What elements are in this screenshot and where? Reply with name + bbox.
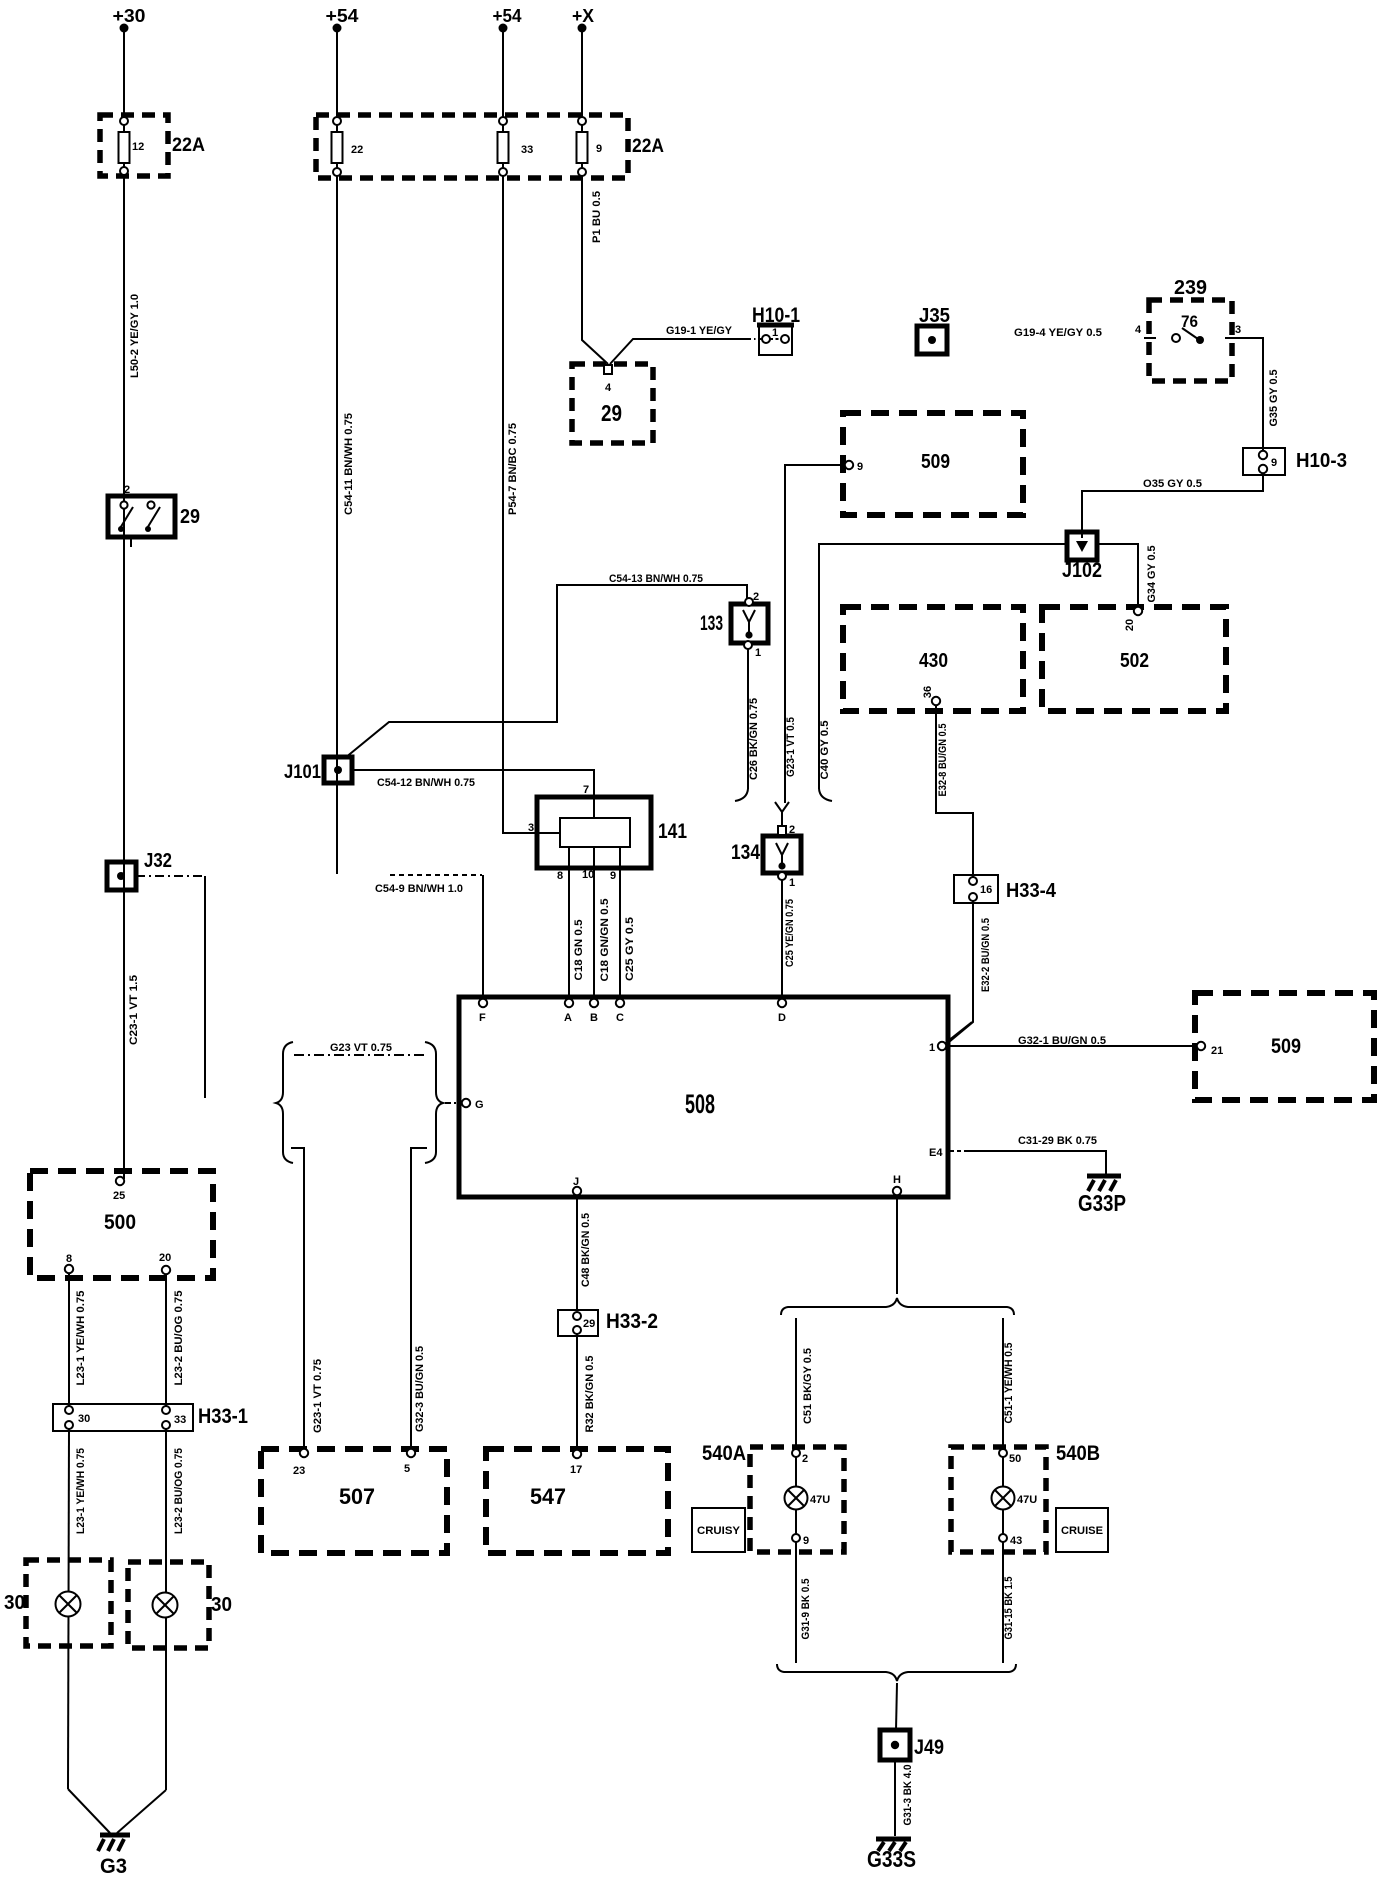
508 pin G: [462, 1099, 484, 1111]
svg-text:507: 507: [339, 1484, 375, 1509]
svg-text:25: 25: [113, 1190, 125, 1202]
svg-text:33: 33: [174, 1414, 186, 1426]
svg-text:G32-3 BU/GN 0.5: G32-3 BU/GN 0.5: [414, 1346, 426, 1432]
svg-text:G31-3 BK 4.0: G31-3 BK 4.0: [902, 1765, 914, 1826]
svg-text:C54-11 BN/WH 0.75: C54-11 BN/WH 0.75: [343, 413, 355, 515]
svg-text:141: 141: [658, 820, 687, 843]
svg-text:17: 17: [570, 1464, 582, 1476]
wire G35 from 239 pin 3 to H10-3: [1238, 338, 1263, 451]
svg-text:E32-2 BU/GN 0.5: E32-2 BU/GN 0.5: [980, 918, 992, 992]
wire +54 to fuse 33: [502, 32, 504, 121]
wire C54-11 fuse 22 down through J101: [336, 176, 338, 874]
junction J102: [1062, 532, 1102, 582]
wire H33-1 to lamp 30 (left): [68, 1429, 69, 1789]
brace bundle G23 left of 508: [276, 1042, 458, 1163]
connector H10-1: [752, 304, 800, 355]
ground G3: [98, 1835, 130, 1878]
svg-text:21: 21: [1211, 1045, 1223, 1057]
label CRUISE (right): [1056, 1508, 1108, 1552]
connector H33-2: [558, 1310, 658, 1336]
switch 239: [1135, 277, 1241, 381]
svg-text:E4: E4: [929, 1147, 943, 1159]
wire G31-3 J49 to ground G33S: [894, 1760, 896, 1836]
svg-text:P54-7 BN/BC 0.75: P54-7 BN/BC 0.75: [507, 423, 519, 515]
svg-text:D: D: [778, 1012, 786, 1024]
svg-text:B: B: [590, 1012, 598, 1024]
wire C54-9 (dashed continuation) to 508 pin F: [390, 875, 483, 1000]
svg-text:509: 509: [1271, 1035, 1301, 1058]
unit 29 (dashed): [572, 364, 653, 443]
svg-text:+X: +X: [572, 6, 594, 26]
svg-text:1: 1: [929, 1042, 935, 1054]
svg-text:430: 430: [919, 650, 948, 672]
wire G31-9 from 540A pin 9: [795, 1542, 797, 1663]
svg-text:C26 BK/GN 0.75: C26 BK/GN 0.75: [748, 698, 760, 780]
svg-text:3: 3: [1235, 324, 1241, 336]
wire +30 to fuse 12: [123, 32, 125, 121]
svg-text:J35: J35: [919, 305, 950, 327]
svg-text:C18 GN/GN 0.5: C18 GN/GN 0.5: [599, 899, 611, 982]
connector H33-4: [954, 875, 1057, 903]
unit 502: [1042, 607, 1226, 711]
svg-text:50: 50: [1009, 1453, 1021, 1465]
wire +X to fuse 9: [581, 32, 583, 121]
svg-text:G23-1 VT 0.75: G23-1 VT 0.75: [312, 1359, 324, 1433]
svg-text:30: 30: [211, 1594, 232, 1616]
wire +54 to fuse 22: [336, 32, 338, 121]
svg-text:4: 4: [1135, 324, 1142, 336]
wire E32-2 from H33-4 to 508 pin 1: [949, 901, 973, 1042]
svg-text:22: 22: [351, 144, 363, 156]
svg-text:C48 BK/GN 0.5: C48 BK/GN 0.5: [580, 1213, 592, 1287]
svg-text:G31-15 BK 1.5: G31-15 BK 1.5: [1003, 1577, 1015, 1640]
svg-text:10: 10: [582, 869, 594, 881]
wire C54-13 from J101 to 133: [345, 585, 747, 758]
unit 500: [30, 1171, 213, 1278]
svg-text:C25 YE/GN 0.75: C25 YE/GN 0.75: [784, 899, 796, 967]
508 pin D: [778, 999, 786, 1024]
svg-text:H33-1: H33-1: [198, 1405, 248, 1428]
svg-text:+30: +30: [113, 6, 146, 26]
svg-text:239: 239: [1174, 277, 1207, 299]
svg-text:540B: 540B: [1056, 1442, 1100, 1465]
svg-text:22A: 22A: [172, 135, 205, 156]
brace split to 540A/540B: [781, 1298, 1014, 1315]
svg-text:G3: G3: [100, 1855, 127, 1878]
wire (dash-dot stub from J32): [136, 875, 205, 877]
508 pin H: [893, 1174, 901, 1195]
fuse 22: [332, 117, 364, 176]
svg-text:47U: 47U: [810, 1494, 830, 1506]
unit 509 (right): [1195, 993, 1374, 1100]
svg-text:J32: J32: [144, 850, 172, 872]
svg-text:H: H: [893, 1174, 901, 1186]
relay 141: [528, 784, 687, 868]
svg-text:P1 BU 0.5: P1 BU 0.5: [591, 191, 603, 243]
svg-text:9: 9: [803, 1535, 809, 1547]
svg-text:CRUISE: CRUISE: [1061, 1525, 1103, 1537]
svg-text:30: 30: [4, 1592, 25, 1614]
wire 500 pin 8 to H33-1: [68, 1273, 70, 1407]
svg-text:29: 29: [601, 400, 622, 426]
svg-text:E32-8 BU/GN 0.5: E32-8 BU/GN 0.5: [937, 724, 949, 797]
508 pin A: [564, 999, 573, 1024]
junction J49: [880, 1730, 944, 1760]
svg-text:4: 4: [605, 382, 612, 394]
svg-text:500: 500: [104, 1211, 136, 1234]
svg-text:L50-2 YE/GY 1.0: L50-2 YE/GY 1.0: [129, 294, 141, 378]
svg-text:8: 8: [557, 870, 563, 882]
wire R32 H33-2 to 547 pin 17: [576, 1334, 578, 1450]
svg-text:G: G: [475, 1099, 484, 1111]
svg-text:G19-1 YE/GY: G19-1 YE/GY: [666, 325, 733, 337]
node +54 (second): [493, 6, 522, 33]
svg-text:20: 20: [1124, 619, 1136, 631]
svg-text:2: 2: [753, 591, 759, 603]
svg-text:547: 547: [530, 1484, 566, 1509]
junction J35: [917, 305, 950, 354]
svg-text:9: 9: [857, 461, 863, 473]
wire G23-1 from 509 pin 9 down to 134 pin 2 (arrow): [775, 465, 845, 826]
svg-text:H33-4: H33-4: [1006, 880, 1057, 902]
svg-text:G35 GY 0.5: G35 GY 0.5: [1268, 370, 1280, 427]
svg-text:20: 20: [159, 1252, 171, 1264]
svg-text:9: 9: [596, 143, 602, 155]
wire C26 from 133 pin 1 (curled end): [735, 649, 748, 801]
svg-text:C54-12 BN/WH 0.75: C54-12 BN/WH 0.75: [377, 777, 475, 789]
svg-text:G23 VT 0.75: G23 VT 0.75: [330, 1042, 392, 1054]
svg-text:L23-1 YE/WH 0.75: L23-1 YE/WH 0.75: [75, 1291, 87, 1386]
unit 507: [261, 1449, 447, 1553]
switch 29: [108, 484, 200, 547]
svg-text:29: 29: [180, 506, 200, 528]
svg-text:5: 5: [404, 1463, 410, 1475]
wire E32-8 from 430 pin 36 to H33-4: [936, 705, 973, 877]
508 pin B: [590, 999, 598, 1024]
svg-text:+54: +54: [493, 6, 522, 26]
brace merge to J49: [777, 1664, 1016, 1681]
svg-text:C40 GY 0.5: C40 GY 0.5: [819, 721, 831, 780]
svg-text:CRUISY: CRUISY: [697, 1525, 741, 1537]
svg-text:508: 508: [685, 1089, 715, 1119]
connector 134: [731, 824, 801, 889]
node +X: [572, 6, 594, 33]
lamp unit 540B: [951, 1442, 1100, 1552]
508 pin F: [479, 999, 487, 1024]
wire 500 pin 20 to H33-1: [165, 1274, 167, 1407]
svg-text:O35 GY 0.5: O35 GY 0.5: [1143, 478, 1202, 490]
wire G19-1 from H10-1 to unit 29: [610, 339, 764, 364]
svg-text:134: 134: [731, 841, 760, 864]
svg-text:C54-13 BN/WH 0.75: C54-13 BN/WH 0.75: [609, 573, 703, 585]
lamp unit 540A: [702, 1442, 844, 1552]
svg-text:A: A: [564, 1012, 572, 1024]
svg-text:16: 16: [980, 884, 992, 896]
svg-text:C: C: [616, 1012, 624, 1024]
ground G33P: [1078, 1176, 1126, 1216]
svg-text:G33S: G33S: [867, 1846, 916, 1872]
fuse 9: [577, 117, 603, 176]
svg-text:30: 30: [78, 1413, 90, 1425]
svg-text:23: 23: [293, 1465, 305, 1477]
svg-text:C51-1 YE/WH 0.5: C51-1 YE/WH 0.5: [1003, 1343, 1015, 1424]
svg-text:2: 2: [789, 824, 795, 836]
ground G33S: [867, 1839, 916, 1872]
svg-text:C54-9 BN/WH 1.0: C54-9 BN/WH 1.0: [375, 883, 463, 895]
svg-text:J102: J102: [1062, 559, 1102, 582]
lamp 30 (left): [4, 1560, 111, 1646]
connector H33-1: [53, 1404, 248, 1431]
wire C51 to 540A pin 2: [795, 1318, 797, 1450]
wire P1 fuse 9 down to unit 29: [582, 176, 608, 364]
svg-text:7: 7: [583, 784, 589, 796]
svg-text:29: 29: [583, 1318, 595, 1330]
wire C31-29 508 pin E4 to ground G33P: [950, 1151, 1106, 1174]
svg-text:509: 509: [921, 451, 950, 473]
svg-text:C25 GY 0.5: C25 GY 0.5: [624, 917, 636, 981]
svg-text:C51 BK/GY 0.5: C51 BK/GY 0.5: [802, 1348, 814, 1424]
508 pin 1: [929, 1042, 946, 1054]
wire G32-3 brace to 507 pin 5: [411, 1148, 427, 1449]
svg-text:2: 2: [124, 484, 130, 496]
wire H33-1 to lamp 30 (right): [165, 1429, 167, 1790]
wire 508 pin H down to brace: [896, 1195, 898, 1294]
label CRUISE (left): [692, 1508, 745, 1552]
wire O35 from H10-3 to J102: [1082, 475, 1263, 538]
wire C51-1 to 540B pin 50: [1002, 1318, 1004, 1450]
svg-text:47U: 47U: [1017, 1494, 1037, 1506]
svg-text:+54: +54: [326, 6, 359, 26]
wire G32-1 508 pin 1 to 509 pin 21: [947, 1022, 1197, 1046]
lamp 30 (right): [128, 1562, 232, 1648]
wire brace to J49: [896, 1683, 897, 1730]
svg-text:L23-2 BU/OG 0.75: L23-2 BU/OG 0.75: [173, 1291, 185, 1386]
svg-text:540A: 540A: [702, 1442, 746, 1465]
wires 141 pins 8,10,9 down to 508: [557, 847, 620, 1000]
svg-text:G31-9 BK 0.5: G31-9 BK 0.5: [800, 1579, 812, 1640]
svg-text:C23-1 VT 1.5: C23-1 VT 1.5: [128, 975, 140, 1045]
svg-text:1: 1: [789, 877, 795, 889]
fuse 12: [119, 117, 145, 175]
fuse box 22A (left): [100, 115, 168, 176]
wire C48 508 pin J to H33-2: [576, 1195, 578, 1311]
svg-text:R32 BK/GN 0.5: R32 BK/GN 0.5: [584, 1356, 596, 1433]
svg-text:G19-4 YE/GY 0.5: G19-4 YE/GY 0.5: [1014, 327, 1102, 339]
svg-text:502: 502: [1120, 650, 1149, 672]
wire C54-7 fuse 33 down to 141 pin 3: [503, 176, 560, 833]
unit 547: [486, 1449, 668, 1553]
connector H10-3: [1243, 448, 1347, 475]
wire C25 from 134 to 508 pin D: [781, 880, 783, 1000]
svg-text:G32-1 BU/GN 0.5: G32-1 BU/GN 0.5: [1018, 1035, 1106, 1047]
svg-text:36: 36: [922, 686, 934, 698]
svg-text:L23-1 YE/WH 0.75: L23-1 YE/WH 0.75: [75, 1448, 87, 1534]
unit 430: [843, 607, 1023, 711]
control unit 508: [459, 997, 948, 1197]
svg-text:9: 9: [610, 870, 616, 882]
svg-text:H10-3: H10-3: [1296, 450, 1347, 472]
svg-text:J101: J101: [284, 762, 321, 783]
svg-text:33: 33: [521, 144, 533, 156]
unit 509 (top): [843, 413, 1023, 515]
wire G23-1 brace to 507 pin 23: [291, 1148, 304, 1449]
junction J32: [107, 850, 172, 890]
wire C54-12 from J101 to 141 pin 7: [352, 770, 594, 818]
508 pin C: [616, 999, 624, 1024]
svg-text:1: 1: [755, 647, 761, 659]
svg-text:1: 1: [772, 327, 778, 339]
svg-text:J: J: [573, 1176, 579, 1188]
svg-text:9: 9: [1271, 457, 1277, 469]
svg-text:C31-29 BK 0.75: C31-29 BK 0.75: [1018, 1135, 1097, 1147]
svg-text:F: F: [479, 1012, 486, 1024]
connector 133: [700, 591, 768, 659]
wire lamps converge to ground G3: [68, 1789, 110, 1833]
svg-text:8: 8: [66, 1253, 72, 1265]
svg-text:J49: J49: [914, 1736, 944, 1759]
fuse 33: [498, 117, 534, 176]
svg-text:2: 2: [802, 1453, 808, 1465]
svg-text:133: 133: [700, 612, 723, 635]
wire G34 from J102 to 502 pin 20: [1097, 544, 1138, 608]
node +54 (first): [326, 6, 359, 33]
svg-text:G34 GY 0.5: G34 GY 0.5: [1146, 546, 1158, 603]
wire C40 from J102 (curled end): [819, 544, 1067, 801]
svg-text:3: 3: [528, 822, 534, 834]
svg-text:G23-1 VT 0.5: G23-1 VT 0.5: [785, 717, 797, 777]
svg-text:22A: 22A: [632, 136, 664, 157]
junction J101: [284, 757, 352, 783]
wire L50-2 fuse 12 to switch 29 and on to junction J32 and unit 500: [123, 176, 125, 1179]
svg-text:43: 43: [1010, 1535, 1022, 1547]
svg-text:H33-2: H33-2: [606, 1310, 658, 1333]
wire G31-15 from 540B pin 43: [1002, 1542, 1004, 1663]
node +30: [113, 6, 146, 33]
svg-text:12: 12: [132, 141, 144, 153]
svg-text:L23-2 BU/OG 0.75: L23-2 BU/OG 0.75: [173, 1448, 185, 1534]
fuse box 22A (main): [316, 115, 628, 178]
508 pin J: [573, 1176, 581, 1195]
svg-text:C18 GN 0.5: C18 GN 0.5: [573, 920, 585, 981]
svg-text:H10-1: H10-1: [752, 304, 800, 327]
svg-text:G33P: G33P: [1078, 1190, 1126, 1216]
